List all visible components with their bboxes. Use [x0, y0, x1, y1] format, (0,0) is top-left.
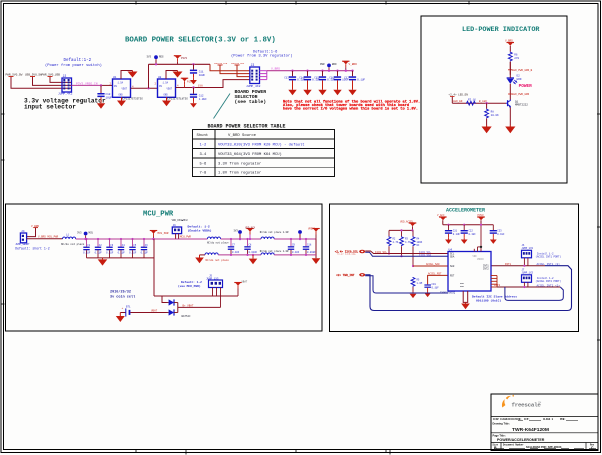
power flag circle MCU [77, 232, 94, 241]
svg-text:0.1UF: 0.1UF [95, 251, 103, 254]
svg-text:1.5A: 1.5A [118, 82, 124, 85]
svg-text:LED_PWR_GRN_B: LED_PWR_GRN_B [512, 69, 533, 72]
svg-text:JUMP_4X2: JUMP_4X2 [246, 85, 261, 88]
jumper J3 BOARD POWER SELECTOR [246, 63, 261, 88]
wire U1 out to U2 with riser to 3V3 rail [131, 87, 158, 89]
top power flag VDD_ACCEL [437, 214, 447, 225]
svg-text:NC/do not place: NC/do not place [61, 242, 85, 246]
tied NC pins comb [491, 276, 497, 288]
svg-text:1.0UF: 1.0UF [199, 98, 207, 101]
table row 3-4 [200, 152, 282, 157]
regulator U1 [110, 76, 144, 101]
svg-text:Default:1-2: Default:1-2 [64, 58, 92, 63]
transistor Q1 [506, 100, 528, 108]
pullup rail [389, 229, 413, 231]
jumper J9 VDDA enable [172, 219, 188, 239]
power flag MCU_PWR right [150, 231, 169, 241]
net label LED_PWR red [508, 69, 533, 72]
LED-POWER INDICATOR section box [421, 16, 567, 183]
svg-text:I2C0_SDA: I2C0_SDA [419, 254, 432, 257]
annotation Default short 1-2 [15, 246, 50, 250]
svg-text:0.1UF: 0.1UF [469, 233, 477, 236]
ground cap bank [98, 258, 108, 266]
svg-text:U4: U4 [449, 249, 453, 252]
svg-text:BRD: BRD [332, 63, 337, 66]
IC top pin stems [474, 225, 481, 252]
text 3v coin cell [110, 289, 135, 299]
wire J4 to L1 [27, 238, 63, 240]
svg-text:GND: GND [164, 94, 169, 97]
svg-text:0.1UF: 0.1UF [106, 251, 114, 254]
svg-text:Drawing Title:: Drawing Title: [493, 421, 510, 425]
input pad I2C0_SCL/SDA [335, 249, 366, 255]
annotation J7 [536, 277, 562, 283]
table row 5-6 [200, 161, 262, 166]
resistor R3 pullup SDA [400, 229, 412, 257]
svg-text:PWR_5V0_SW: PWR_5V0_SW [6, 74, 23, 77]
power flag V_BRD at J4 [27, 225, 40, 237]
power flag V_BRD top [505, 40, 514, 52]
input stub label [449, 93, 469, 104]
inductor L1 [61, 234, 85, 246]
text BOARD POWER SELECTOR (see table) [235, 89, 267, 105]
svg-text:C13: C13 [284, 77, 289, 80]
svg-text:1.5A: 1.5A [163, 82, 169, 85]
diode cathode join [178, 303, 221, 313]
svg-text:NC/do not place: NC/do not place [207, 242, 229, 245]
svg-text:0.1UF: 0.1UF [497, 233, 505, 236]
frame zone tick marks left [1, 114, 5, 304]
annotation Default 1-2 Enable VDDA [188, 224, 212, 232]
annotation use MCU_PWR [178, 280, 202, 288]
svg-text:10.0K: 10.0K [491, 114, 499, 117]
capacitor C4 [118, 238, 126, 258]
U2 top pin to gnd tab [166, 71, 178, 80]
svg-text:SA0: SA0 [450, 265, 455, 268]
capacitor C19 on RST [424, 283, 439, 297]
inductor L2 [207, 237, 229, 245]
svg-text:MCU_PWR: MCU_PWR [158, 232, 169, 235]
rail1 right end [274, 238, 316, 240]
svg-text:PUB:: PUB: [560, 418, 566, 421]
svg-text:Default: 1-2: Default: 1-2 [181, 280, 202, 284]
IC bottom gnd pins [461, 291, 470, 309]
svg-text:VDDIO: VDDIO [477, 258, 484, 261]
svg-text:NCP1117ST33T3G: NCP1117ST33T3G [121, 98, 143, 101]
J7 stems [524, 282, 528, 287]
capacitor C8 [244, 238, 257, 256]
svg-text:NCP1117ST18T3G: NCP1117ST18T3G [166, 98, 188, 101]
svg-text:NC/do not place 1.0R: NC/do not place 1.0R [260, 231, 289, 234]
power flag circle VDD [234, 230, 242, 241]
svg-text:VOUT33_K64(3V3 FROM K64 MCU): VOUT33_K64(3V3 FROM K64 MCU) [218, 152, 282, 157]
capacitor C9 [288, 238, 300, 256]
J3 input stub VOUT33_K64 [231, 62, 250, 77]
svg-text:VBAT: VBAT [151, 310, 158, 313]
table row 7-8 [200, 171, 262, 176]
power label stub on rail [174, 56, 188, 65]
regulator U2 [155, 76, 189, 101]
J5 pin stems [213, 288, 221, 308]
svg-text:L1: L1 [66, 234, 70, 237]
svg-text:Default: short 1-2: Default: short 1-2 [15, 246, 50, 250]
wire RST with cap [428, 275, 448, 284]
svg-text:V_BRD: V_BRD [505, 40, 513, 43]
jumper J5 [206, 275, 223, 288]
svg-text:0011100 (0x1C): 0011100 (0x1C) [476, 299, 501, 303]
svg-text:I2C0_SCL: I2C0_SCL [375, 251, 388, 254]
wire J5 feed [154, 295, 238, 297]
svg-text:C17: C17 [344, 77, 349, 80]
svg-text:0.1UF: 0.1UF [129, 251, 137, 254]
svg-text:<2> TWR_INT: <2> TWR_INT [336, 273, 355, 277]
inductor L3 [261, 237, 274, 239]
svg-text:U2: U2 [158, 76, 162, 79]
diode D1 [166, 299, 178, 305]
svg-text:(see table): (see table) [235, 99, 267, 105]
svg-text:0.1UF: 0.1UF [453, 233, 461, 236]
top power flag GND ref [477, 214, 485, 225]
svg-text:RST: RST [450, 274, 455, 277]
svg-text:ICAP CLASSIFICATION:: ICAP CLASSIFICATION: [493, 418, 522, 421]
svg-text:4.7K: 4.7K [405, 241, 411, 244]
svg-text:JUMP_4X2: JUMP_4X2 [58, 93, 73, 96]
LED D2 [507, 75, 522, 85]
ACCELEROMETER section box [330, 204, 579, 332]
svg-text:NC/do not place 1.0R: NC/do not place 1.0R [260, 250, 289, 253]
U1 top pin to gnd arrow right [121, 71, 133, 80]
svg-text:J3: J3 [251, 63, 255, 67]
capacitor C2 [95, 238, 103, 258]
capacitor C7 [228, 238, 240, 256]
capacitor C3 [106, 238, 114, 258]
rail MCU_PWR [76, 238, 154, 240]
svg-text:input selector: input selector [24, 104, 76, 111]
svg-text:0.1UF: 0.1UF [141, 251, 149, 254]
svg-text:V_BRD: V_BRD [349, 63, 358, 66]
svg-text:1-2: 1-2 [200, 144, 208, 148]
svg-text:5-6: 5-6 [200, 162, 208, 166]
table row 1-2 [200, 143, 305, 148]
svg-text:0.1UF: 0.1UF [432, 286, 440, 289]
svg-text:BOARD POWER SELECTOR TABLE: BOARD POWER SELECTOR TABLE [208, 124, 286, 130]
text: 3.3v voltage regulator input selector [24, 98, 106, 111]
svg-text:MCU_PWR: MCU_PWR [143, 210, 174, 218]
svg-text:0.1UF: 0.1UF [232, 251, 240, 254]
emitter wire to gnd [509, 108, 511, 126]
svg-text:V_BRD: V_BRD [271, 67, 280, 70]
svg-text:10UF: 10UF [199, 74, 206, 77]
V_BRD rail with caps [267, 70, 353, 72]
svg-text:3v coin cell: 3v coin cell [110, 294, 135, 299]
resistor R6 [508, 52, 519, 62]
ground right [312, 258, 321, 264]
pulldown resistor R8 [485, 103, 499, 125]
bottom row of title block [494, 448, 596, 450]
svg-text:0.01UF: 0.01UF [307, 251, 316, 254]
annotation blue: Default:1-2 power switch [45, 58, 102, 68]
svg-text:(ACCEL INT1 PORT): (ACCEL INT1 PORT) [536, 256, 562, 259]
ground rail2 mid [249, 254, 258, 265]
svg-text:Page Title:: Page Title: [493, 433, 506, 437]
svg-text:10UF: 10UF [106, 96, 113, 99]
svg-text:INT1: INT1 [505, 263, 512, 266]
power label VREFH [308, 228, 320, 240]
svg-text:ACCEL_INT2 <2>: ACCEL_INT2 <2> [537, 283, 561, 287]
wire INT2 route [497, 286, 560, 288]
svg-text:LED_PWR_GRN: LED_PWR_GRN [512, 93, 530, 96]
svg-text:Document Number: Document Number [503, 443, 524, 446]
svg-text:VOUT: VOUT [167, 88, 173, 91]
wire SCL [365, 251, 448, 254]
gnd U1 bottom [117, 97, 126, 106]
svg-text:0.1UF: 0.1UF [357, 79, 365, 82]
svg-text:BAT54C: BAT54C [182, 315, 192, 318]
J3 input stub VOUT33_K20 [214, 62, 250, 74]
capacitor C14 [299, 70, 320, 96]
wire LED to Q1 [509, 62, 511, 78]
red note text 1.8V warning [283, 100, 420, 112]
capacitor C21 [461, 224, 477, 244]
junction base divider [485, 102, 487, 104]
wire J2 out to U1 [72, 84, 102, 86]
jumper J2 (3.3v regulator input selector) [58, 74, 73, 95]
svg-text:VDD_KXX■MCU: VDD_KXX■MCU [172, 219, 188, 222]
jumper J6 [522, 244, 534, 258]
title block field row [491, 416, 598, 418]
svg-text:MCU_PWR: MCU_PWR [180, 236, 191, 239]
svg-text:(ACCEL INT2 PORT): (ACCEL INT2 PORT) [536, 280, 562, 283]
svg-text:VBAT: VBAT [242, 281, 248, 284]
wire SA0 [413, 265, 448, 267]
svg-text:NC/do not place: NC/do not place [206, 258, 230, 262]
1.8V output wire of U2 [176, 80, 250, 88]
capacitor C5 [129, 238, 137, 258]
svg-text:MMBT2222: MMBT2222 [515, 104, 528, 107]
svg-text:GRN: GRN [517, 78, 522, 81]
gnd U2 bottom [162, 97, 171, 106]
svg-text:V_BRD Source: V_BRD Source [228, 134, 257, 138]
net label LED_PS red [508, 93, 530, 96]
pointer line to table [214, 94, 231, 119]
cap bank bottom rail [87, 257, 154, 259]
svg-text:BT1: BT1 [126, 305, 131, 308]
input pad ACCEL_INT [336, 273, 365, 277]
svg-text:TWR-K64F120M: TWR-K64F120M [512, 427, 549, 433]
svg-text:FXOS8700CQ: FXOS8700CQ [440, 292, 456, 295]
3V3 rail [149, 63, 211, 65]
svg-text:3V3: 3V3 [147, 56, 152, 59]
svg-text:U1: U1 [113, 76, 117, 79]
ground battery [116, 313, 125, 323]
svg-text:VREFH: VREFH [308, 228, 316, 231]
svg-text:0.1UF: 0.1UF [118, 251, 126, 254]
frame zone tick marks top [136, 1, 469, 5]
svg-text:1.8V from regulator: 1.8V from regulator [218, 171, 261, 176]
wire R6 to LED [509, 62, 511, 75]
svg-text:Shunt: Shunt [197, 133, 209, 138]
svg-text:J2: J2 [63, 74, 67, 78]
svg-text:CLASS 3: CLASS 3 [543, 418, 554, 421]
svg-text:(Enable VDDA): (Enable VDDA) [188, 228, 212, 232]
selector table grid [193, 130, 335, 177]
capacitor C15 [314, 70, 335, 96]
MCU_PWR section box [6, 204, 323, 331]
svg-text:VOUT33_K20(3V3 FROM K20 MCU) -: VOUT33_K20(3V3 FROM K20 MCU) - default [218, 143, 305, 148]
svg-text:REG: REG [159, 56, 164, 59]
jumper J4 [15, 230, 30, 246]
capacitor C1 [83, 238, 91, 258]
svg-text:V_BRD MCU_PWR: V_BRD MCU_PWR [38, 236, 59, 239]
base resistor R7 [466, 99, 476, 106]
svg-text:B+ VBAT: B+ VBAT [183, 305, 194, 308]
svg-text:LED_EN: LED_EN [453, 100, 463, 103]
node PWR_5V0_SW net labels [6, 74, 61, 77]
power flag 1V8 [181, 78, 194, 87]
capacitor C18 [303, 238, 316, 256]
svg-text:(Power from 3.3V regulator): (Power from 3.3V regulator) [231, 54, 293, 59]
wire SDA [365, 252, 448, 256]
capacitor C14 on 1.8V wire [190, 86, 207, 107]
capacitor C12 [97, 85, 113, 108]
svg-text:have the correct I/O voltages: have the correct I/O voltages when this … [283, 107, 418, 112]
svg-text:freescale: freescale [512, 401, 542, 408]
frame zone tick marks right [597, 114, 601, 340]
svg-text:POWER: POWER [519, 84, 533, 89]
junction at cap C12 [100, 84, 102, 86]
svg-text:C18: C18 [307, 244, 312, 247]
svg-text:J9: J9 [173, 224, 177, 227]
size/docnum/rev row [493, 443, 595, 446]
svg-text:<2,4> I2C0_SDA: <2,4> I2C0_SDA [337, 252, 356, 255]
svg-text:P1V8: P1V8 [187, 81, 194, 84]
power stub VDD_ACCEL pullups [400, 220, 416, 231]
capacitor C13 on rail [190, 63, 206, 84]
svg-text:3V3: 3V3 [77, 232, 82, 235]
svg-text:POWER/ACCELEROMETER: POWER/ACCELEROMETER [497, 438, 545, 442]
svg-text:3V3: 3V3 [234, 230, 239, 233]
resistor R4 pullup SA0 [411, 230, 423, 267]
svg-text:ACCEL_SA0: ACCEL_SA0 [426, 263, 440, 266]
svg-text:LED-POWER INDICATOR: LED-POWER INDICATOR [462, 26, 540, 34]
vertical drop right [315, 239, 317, 258]
power flag V_BRD [342, 61, 357, 72]
svg-text:+: + [122, 307, 124, 310]
capacitor C13 [284, 70, 305, 96]
rail1 mid [221, 238, 261, 240]
decoupling rail accel [443, 224, 494, 226]
frame zone tick marks bottom [136, 450, 390, 455]
rail continues to right part [154, 238, 208, 240]
inductor L5 [261, 253, 274, 255]
svg-text:ACCEL_INT1 <2>: ACCEL_INT1 <2> [537, 262, 561, 266]
vertical feed to coin cell area [153, 239, 155, 296]
power flag circle VREFH [298, 230, 302, 240]
svg-text:3-4: 3-4 [200, 153, 208, 157]
svg-text:<2,4> LED_EN: <2,4> LED_EN [449, 93, 469, 97]
svg-text:P3V3: P3V3 [181, 57, 188, 60]
svg-text:JUMP_1X3: JUMP_1X3 [206, 277, 219, 280]
wire to diodes top [154, 296, 167, 303]
svg-text:ACCELEROMETER: ACCELEROMETER [446, 208, 485, 214]
table header row [197, 133, 257, 138]
svg-text:SDA: SDA [450, 256, 455, 259]
power flag circle on V_BRD rail [320, 63, 337, 71]
resistor R5 to gnd [410, 277, 423, 298]
svg-text:INT2: INT2 [483, 268, 489, 271]
freescale logo [502, 395, 541, 409]
power stub VDD_KXX [245, 227, 256, 241]
svg-text:MCU: MCU [89, 232, 94, 235]
capacitor C6 [141, 238, 149, 258]
svg-text:VDD_KXX: VDD_KXX [245, 227, 256, 230]
power flag VBAT right [234, 281, 248, 297]
svg-text:TM: TM [538, 402, 541, 404]
svg-text:GND: GND [460, 285, 465, 288]
inner lower wire [365, 276, 448, 293]
svg-text:2016/25/32: 2016/25/32 [110, 289, 131, 294]
inductor L4 [205, 253, 218, 255]
accelerometer IC U1 [440, 249, 491, 295]
capacitor C22 [490, 225, 505, 244]
svg-text:ACCEL_RST: ACCEL_RST [428, 273, 442, 276]
battery BT1 [120, 305, 166, 316]
svg-text:7-8: 7-8 [200, 172, 208, 176]
rail2 VDDA [200, 254, 206, 256]
annotation J6 [536, 252, 562, 258]
annotation default i2c address [472, 295, 517, 303]
svg-text:R7 1K: R7 1K [468, 99, 476, 102]
svg-text:1V8: 1V8 [198, 85, 203, 88]
svg-text:C16: C16 [329, 77, 334, 80]
J3 input wires row1 from 3V3 rail [210, 64, 250, 70]
svg-text:JUMP_1X3: JUMP_1X3 [522, 247, 534, 250]
svg-text:1.0M: 1.0M [417, 282, 423, 285]
rail2 right [274, 254, 316, 256]
ground Q1 [505, 125, 515, 133]
svg-text:(use MCU_PWR): (use MCU_PWR) [178, 284, 201, 288]
J3 outputs merge [260, 71, 267, 80]
svg-text:FCP:: FCP: [524, 418, 530, 421]
long route outer INT1 [365, 266, 571, 311]
svg-text:0.1UF: 0.1UF [83, 251, 91, 254]
annotation blue: Default:1-6 regulator [231, 50, 293, 59]
label tick marks red [9, 76, 53, 78]
jumper J7 [522, 269, 534, 283]
svg-text:JUMP_1X3: JUMP_1X3 [522, 272, 534, 275]
svg-text:(Power from power switch): (Power from power switch) [45, 63, 102, 68]
svg-text:Default I2C Slave Address: Default I2C Slave Address [472, 295, 517, 299]
base wire [452, 102, 506, 104]
gnd U1 tab [128, 71, 138, 78]
svg-text:4.7K: 4.7K [393, 241, 399, 244]
ground rail2 left [195, 255, 204, 263]
svg-text:GND: GND [119, 94, 124, 97]
diode D3 [166, 309, 178, 315]
svg-text:C14: C14 [299, 77, 304, 80]
svg-text:PWR: PWR [320, 63, 325, 66]
capacitor C17 [344, 70, 365, 96]
svg-text:0.01UF: 0.01UF [249, 251, 258, 254]
rail2 mid [218, 254, 261, 256]
svg-text:INT2: INT2 [494, 284, 501, 287]
title block outline [491, 394, 598, 451]
svg-text:J4: J4 [21, 230, 25, 233]
svg-text:0.1UF: 0.1UF [292, 251, 300, 254]
svg-text:C15: C15 [314, 77, 319, 80]
svg-text:VOUT: VOUT [122, 88, 128, 91]
ground R8 [482, 125, 492, 133]
